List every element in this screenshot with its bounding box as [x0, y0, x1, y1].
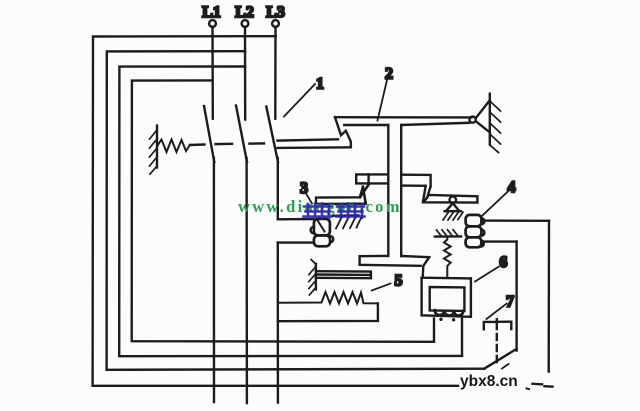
coil 3 bottom wire: [278, 241, 314, 243]
latch bar (part 4 lever): [424, 195, 478, 203]
wire loop B diagonal to riser: [484, 349, 516, 369]
svg-text:L2: L2: [235, 4, 254, 21]
wire loop A (outermost, L3 to bottom bus): [93, 36, 458, 386]
svg-text:ybx8.cn: ybx8.cn: [460, 373, 518, 390]
latch pivot hatching: [443, 212, 463, 220]
wire loop C (ends at L2 wire, to box right terminal bus): [119, 67, 462, 357]
wire L1 drop: [211, 27, 214, 119]
right riser (to bottom bus A): [548, 221, 551, 372]
breaker spring 5 zigzag: [280, 292, 378, 304]
wire pole3 lower drop to overcurrent coil: [277, 158, 279, 219]
wire pole2 lower drop to output: [245, 158, 248, 403]
electromagnet box 6 outer: [422, 278, 471, 317]
watermark blue stamp: [304, 204, 365, 219]
bimetal wall hatching: [309, 267, 316, 295]
spring 5 frame step: [278, 303, 378, 321]
latch pivot triangle: [445, 203, 461, 211]
wire L3 drop: [274, 27, 277, 119]
coil 4 top wire to right riser: [481, 219, 549, 222]
wire loop A dash remnants near ybx8: [533, 384, 553, 387]
upper crossbar right arm: [401, 175, 430, 187]
lever pivot triangle: [476, 100, 490, 132]
svg-text:3: 3: [300, 180, 308, 197]
lower flange right edge to armature: [423, 257, 430, 277]
bimetal wall top tick: [311, 260, 316, 265]
terminal circle L2: [242, 20, 249, 27]
label 4 leader: [481, 191, 508, 217]
electromagnet box 6 inner: [430, 287, 465, 311]
coil 4 bottom wire: [481, 240, 516, 242]
lever 2 top edge: [335, 116, 472, 119]
release button 7 bar: [484, 319, 512, 329]
crank step at lever tip: [335, 117, 351, 147]
fixed contact bar (part 3): [316, 187, 366, 204]
svg-text:5: 5: [395, 273, 403, 290]
label 1 leader: [284, 84, 315, 117]
svg-text:1: 1: [316, 76, 324, 93]
main contact blade pole 1: [204, 106, 214, 162]
trip spring (left) zigzag: [157, 140, 190, 153]
trip bar dashed link: [190, 143, 264, 145]
armature spring anchor hatching: [437, 230, 459, 237]
pivot wall: [489, 94, 491, 145]
pivot wall hatching: [490, 101, 501, 153]
svg-text:L1: L1: [202, 4, 221, 21]
watermark trailing mark: [527, 388, 530, 391]
box 6 right terminal wire: [461, 319, 463, 356]
left arm divider tick: [367, 174, 369, 183]
fixed contact ground line: [333, 214, 359, 217]
box 6 coil bumps: [435, 310, 463, 315]
svg-text:L3: L3: [266, 4, 285, 21]
label 6 leader: [475, 267, 499, 282]
armature plate of release 6: [422, 277, 471, 280]
box 6 terminal dots: [439, 318, 442, 321]
svg-text:4: 4: [508, 179, 516, 196]
label 3 leader: [306, 193, 313, 204]
lever pivot circle: [470, 117, 476, 123]
mechanical link double bar from pole3: [278, 139, 351, 148]
wire L2 drop: [244, 27, 247, 120]
fixed contact ground hatching: [336, 216, 362, 229]
svg-text:7: 7: [506, 294, 514, 311]
svg-text:6: 6: [499, 254, 507, 271]
undervoltage release coil 4: [466, 215, 485, 247]
terminal circle L3: [272, 20, 279, 27]
lever 2 bottom edge: [344, 123, 469, 125]
wire loop D (L1 to box left terminal bus): [132, 80, 434, 341]
bimetal bar: [316, 271, 371, 278]
lower crossbar flange: [360, 256, 430, 266]
riser to loop B diagonal: [515, 242, 517, 351]
latch pivot circle: [450, 197, 457, 204]
upper crossbar left arm: [356, 174, 388, 183]
label 2 leader: [378, 80, 388, 121]
main contact blade pole 2: [236, 106, 247, 163]
wire coil3 to bottom output: [277, 243, 280, 403]
latch finger from crossbar: [423, 186, 431, 202]
moving contact finger (left): [360, 184, 369, 204]
armature spring zigzag: [444, 237, 451, 278]
terminal circle L1: [209, 20, 216, 27]
bimetal wall: [315, 264, 317, 290]
button 7 dashed stem: [496, 323, 498, 364]
wire pole1 lower drop to output: [213, 158, 216, 402]
label 7 leader: [487, 304, 507, 319]
main contact blade pole 3: [266, 107, 278, 163]
box 6 left terminal wire: [433, 319, 435, 342]
moving contact carrier vertical bar: [388, 125, 401, 256]
coil 3 top wire: [278, 218, 314, 221]
overcurrent release coil 3: [311, 219, 334, 246]
armature spring anchor line: [435, 235, 461, 238]
trip spring wall hatching: [150, 130, 158, 174]
wire loop B (L2 to bottom bus, to diagonal): [107, 51, 485, 370]
trip spring anchor wall: [156, 126, 158, 168]
label 5 leader: [372, 284, 391, 291]
sketch remnant diagonal: [502, 364, 509, 369]
